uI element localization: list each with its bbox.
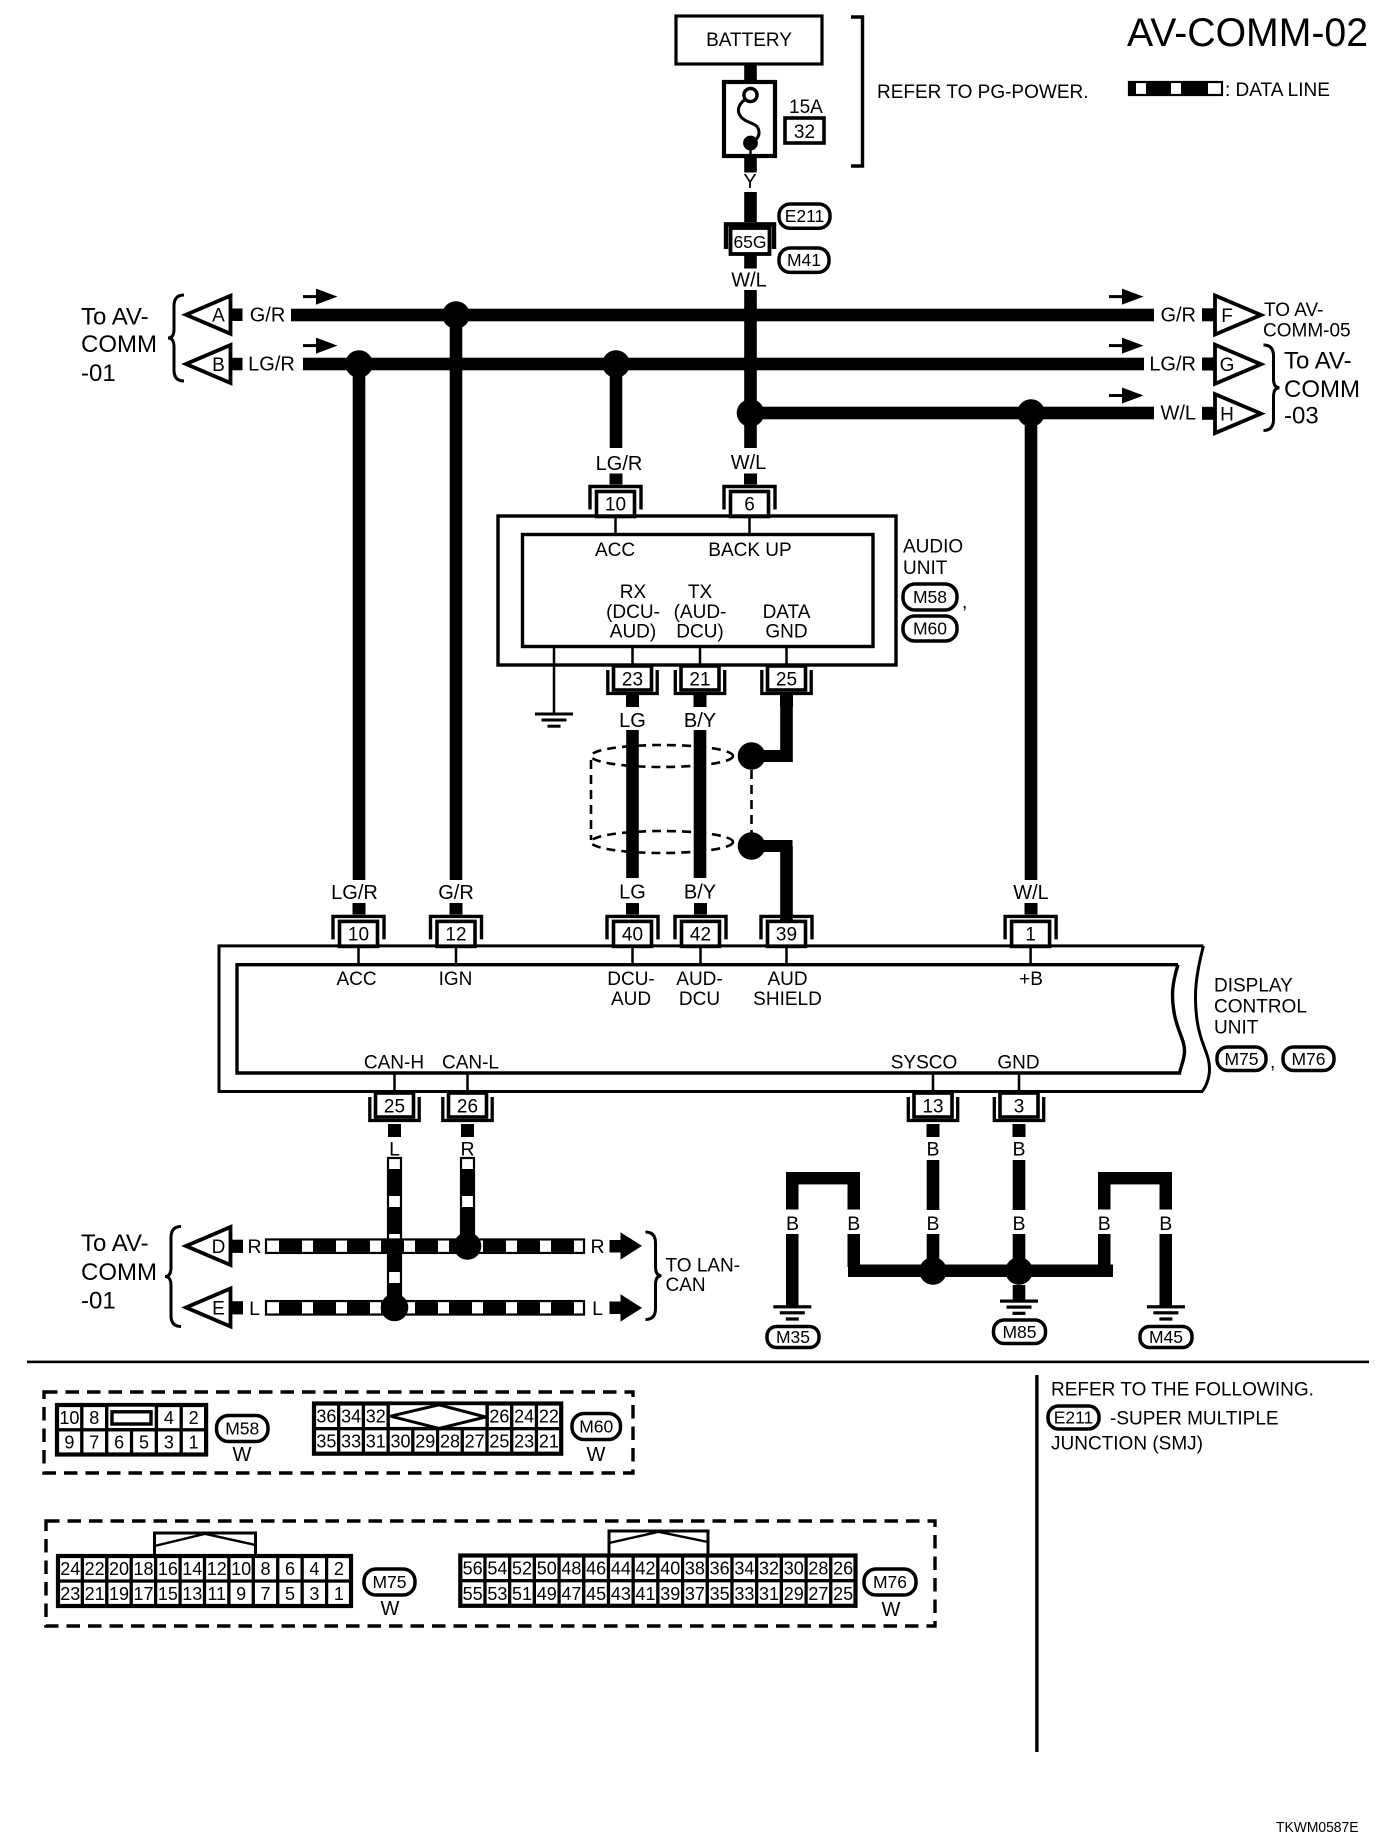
junction dot row B x359 — [345, 350, 373, 378]
display control unit box — [219, 946, 1210, 1092]
wire row A to DCU IGN, color G/R — [450, 315, 463, 880]
svg-text:13: 13 — [922, 1097, 943, 1118]
svg-text:36: 36 — [316, 1407, 336, 1427]
arrow A to AV-COMM-01 — [186, 296, 231, 334]
svg-text:W: W — [882, 1599, 901, 1621]
svg-text:W/L: W/L — [731, 452, 767, 474]
svg-text:1: 1 — [334, 1584, 344, 1604]
junction dot ground bus x933 — [919, 1257, 947, 1285]
direction arrow row A right — [1109, 295, 1125, 298]
svg-text:39: 39 — [776, 924, 797, 945]
battery B1 — [676, 16, 822, 64]
svg-text:32: 32 — [759, 1559, 779, 1579]
svg-text:L: L — [249, 1298, 260, 1320]
ground loop right leg to M45, color B — [1160, 1184, 1173, 1210]
svg-text:3: 3 — [1014, 1097, 1025, 1118]
svg-text:LG/R: LG/R — [248, 354, 295, 376]
svg-text:W/L: W/L — [1013, 882, 1049, 904]
data line CAN-H vertical — [388, 1158, 401, 1300]
separator line — [27, 1361, 1369, 1364]
bus wire G/R row A — [291, 309, 1154, 322]
ground audio unit — [535, 713, 573, 716]
svg-text:3: 3 — [164, 1433, 174, 1453]
svg-text:G/R: G/R — [1160, 305, 1196, 327]
svg-text:32: 32 — [794, 122, 815, 143]
svg-text:6: 6 — [285, 1559, 295, 1579]
svg-text:M58: M58 — [913, 587, 947, 607]
svg-text:COMM: COMM — [1284, 376, 1360, 403]
bracket refer to pg-power — [851, 17, 863, 166]
DCU pin lines top — [357, 946, 360, 965]
svg-text:LG/R: LG/R — [331, 882, 378, 904]
SMJ connector 65G — [726, 224, 774, 249]
svg-text:LG/R: LG/R — [596, 453, 643, 475]
audio ground pin line — [553, 647, 556, 714]
svg-text:TKWM0587E: TKWM0587E — [1276, 1820, 1359, 1836]
svg-text:30: 30 — [784, 1559, 804, 1579]
svg-text:24: 24 — [514, 1407, 534, 1427]
svg-text:54: 54 — [487, 1559, 507, 1579]
svg-text:23: 23 — [514, 1432, 534, 1452]
svg-text:46: 46 — [586, 1559, 606, 1579]
junction dot row B x616 — [602, 350, 630, 378]
wire row B to DCU ACC, color LG/R — [353, 364, 366, 880]
svg-text:-01: -01 — [81, 1288, 116, 1315]
svg-text:M85: M85 — [1002, 1322, 1036, 1342]
svg-text:13: 13 — [182, 1584, 202, 1604]
svg-text:5: 5 — [139, 1433, 149, 1453]
svg-text:GND: GND — [765, 622, 807, 643]
DCU connector pin 40 — [607, 916, 658, 939]
svg-text:B: B — [1012, 1139, 1025, 1161]
svg-text:H: H — [1220, 404, 1234, 425]
svg-text:AV-COMM-02: AV-COMM-02 — [1127, 11, 1368, 55]
bus wire W/L row H — [751, 407, 1155, 420]
svg-text:39: 39 — [660, 1584, 680, 1604]
svg-text:7: 7 — [89, 1433, 99, 1453]
svg-text:W: W — [381, 1598, 400, 1620]
svg-text:M76: M76 — [873, 1572, 907, 1592]
svg-text:51: 51 — [512, 1584, 532, 1604]
shield junction dot bottom — [738, 832, 766, 860]
svg-text:M60: M60 — [913, 619, 947, 639]
audio pin line 21 — [699, 647, 702, 667]
svg-text:B: B — [847, 1213, 860, 1235]
svg-text:10: 10 — [59, 1408, 79, 1428]
svg-text:UNIT: UNIT — [1214, 1018, 1259, 1039]
svg-text:35: 35 — [316, 1432, 336, 1452]
svg-text:48: 48 — [561, 1559, 581, 1579]
fuse 15A — [724, 82, 775, 156]
svg-text:B: B — [1098, 1213, 1111, 1235]
DCU connector pin 12 — [431, 916, 482, 939]
brace left top — [168, 295, 184, 381]
svg-text:+B: +B — [1019, 969, 1043, 990]
wire fuse to SMJ, color Y — [744, 156, 757, 173]
svg-text:DCU): DCU) — [676, 622, 724, 643]
svg-text:40: 40 — [622, 924, 643, 945]
svg-text:17: 17 — [133, 1584, 153, 1604]
svg-text:E211: E211 — [785, 206, 825, 226]
svg-text:TO LAN-: TO LAN- — [666, 1256, 741, 1277]
junction dot row A x456 — [442, 301, 470, 329]
svg-text:30: 30 — [391, 1432, 411, 1452]
svg-text:15: 15 — [158, 1584, 178, 1604]
svg-text:M75: M75 — [372, 1572, 406, 1592]
svg-text:41: 41 — [636, 1584, 656, 1604]
svg-text:COMM-05: COMM-05 — [1263, 320, 1351, 341]
svg-text:10: 10 — [231, 1559, 251, 1579]
svg-text:IGN: IGN — [439, 969, 473, 990]
svg-text:W: W — [587, 1444, 606, 1466]
svg-text:22: 22 — [539, 1407, 559, 1427]
data line CAN-L vertical — [461, 1158, 474, 1240]
svg-text:8: 8 — [89, 1408, 99, 1428]
wire dot to ground M85, color B — [1013, 1285, 1026, 1300]
svg-text:19: 19 — [109, 1584, 129, 1604]
connector pinout M58 — [57, 1430, 82, 1455]
wire SMJ to bus, color W/L — [744, 254, 757, 269]
svg-text:(AUD-: (AUD- — [674, 602, 727, 623]
svg-text:37: 37 — [685, 1584, 705, 1604]
svg-text:To AV-: To AV- — [81, 304, 149, 331]
audio connector pin 10 — [590, 487, 641, 510]
svg-text:B/Y: B/Y — [684, 710, 716, 732]
svg-text:R: R — [590, 1236, 604, 1258]
svg-text:55: 55 — [463, 1584, 483, 1604]
svg-text:ACC: ACC — [336, 969, 376, 990]
svg-text:24: 24 — [60, 1559, 80, 1579]
svg-text:E211: E211 — [1054, 1408, 1094, 1428]
direction arrow row B right — [1109, 344, 1125, 347]
svg-text:42: 42 — [690, 924, 711, 945]
svg-text:CAN-L: CAN-L — [442, 1053, 499, 1074]
svg-text:COMM: COMM — [81, 1259, 157, 1286]
svg-text:12: 12 — [207, 1559, 227, 1579]
svg-text:34: 34 — [734, 1559, 754, 1579]
brace right to LAN-CAN — [646, 1232, 662, 1320]
svg-text:: DATA LINE: : DATA LINE — [1225, 80, 1330, 101]
svg-text:4: 4 — [309, 1559, 319, 1579]
svg-text:F: F — [1221, 306, 1233, 327]
ground M35 — [773, 1305, 811, 1308]
direction arrow row A left — [303, 295, 319, 298]
DCU connector pin 26 — [449, 1093, 487, 1117]
svg-text:26: 26 — [489, 1407, 509, 1427]
svg-text:W/L: W/L — [1160, 403, 1196, 425]
svg-text:To AV-: To AV- — [81, 1230, 149, 1257]
svg-text:34: 34 — [341, 1407, 361, 1427]
svg-text:LG: LG — [619, 882, 646, 904]
svg-text:26: 26 — [833, 1559, 853, 1579]
wire row B to audio ACC, color LG/R — [610, 364, 623, 448]
svg-text:(DCU-: (DCU- — [606, 602, 660, 623]
svg-text:R: R — [247, 1236, 261, 1258]
svg-text:42: 42 — [636, 1559, 656, 1579]
svg-text:B: B — [212, 355, 225, 376]
svg-text:21: 21 — [689, 670, 710, 691]
ground bus wire — [848, 1265, 1113, 1278]
connector ref M76 — [1283, 1047, 1334, 1071]
arrow H to AV-COMM-03 — [1202, 407, 1215, 420]
stub above DCU conn 40 — [626, 903, 639, 915]
svg-text:G: G — [1220, 355, 1235, 376]
connector pinout M60 — [314, 1429, 339, 1454]
data line row E — [266, 1301, 584, 1315]
junction dot row H x1031 — [1017, 399, 1045, 427]
stub above DCU conn 42 — [694, 903, 707, 915]
svg-text:52: 52 — [512, 1559, 532, 1579]
DCU connector pin 10 — [333, 916, 384, 939]
data line row D — [266, 1239, 584, 1253]
audio connector pin 21 — [681, 666, 719, 690]
wire row H to DCU +B, color W/L — [1025, 413, 1038, 880]
svg-text:SYSCO: SYSCO — [891, 1053, 958, 1074]
svg-text:LG: LG — [619, 710, 646, 732]
bus wire LG/R row B — [303, 358, 1144, 371]
brace left bottom — [165, 1227, 181, 1327]
svg-text:AUD): AUD) — [610, 622, 656, 643]
svg-text:36: 36 — [710, 1559, 730, 1579]
svg-text:31: 31 — [366, 1432, 386, 1452]
DCU connector pin 3 — [1000, 1093, 1038, 1117]
connector pinout M75 — [58, 1581, 82, 1606]
svg-text:1: 1 — [189, 1433, 199, 1453]
audio connector pin 23 — [614, 666, 652, 690]
connector ref M75 — [1217, 1047, 1266, 1071]
DCU connector pin 42 — [675, 916, 726, 939]
shield cylinder dashed — [591, 745, 733, 767]
shield drain wire from audio 25 — [780, 695, 793, 707]
legend data-line sample bar — [1129, 82, 1222, 95]
svg-text:RX: RX — [620, 582, 647, 603]
svg-text:E: E — [212, 1298, 225, 1319]
svg-text:10: 10 — [605, 495, 626, 516]
svg-text:65G: 65G — [733, 232, 766, 252]
svg-text:44: 44 — [611, 1559, 631, 1579]
svg-text:,: , — [1270, 1052, 1275, 1073]
svg-text:REFER TO PG-POWER.: REFER TO PG-POWER. — [877, 82, 1089, 103]
svg-text:M58: M58 — [225, 1419, 259, 1439]
svg-text:W: W — [233, 1444, 252, 1466]
svg-text:7: 7 — [261, 1584, 271, 1604]
svg-text:5: 5 — [285, 1584, 295, 1604]
audio pin line 23 — [631, 647, 634, 667]
svg-text:-01: -01 — [81, 360, 116, 387]
wire DCU 13 SYSCO, color B — [927, 1124, 940, 1137]
svg-text:GND: GND — [997, 1053, 1039, 1074]
svg-text:6: 6 — [744, 495, 755, 516]
svg-text:15A: 15A — [789, 97, 823, 118]
connector layout box M75-M76 dashed — [46, 1521, 935, 1626]
svg-text:50: 50 — [537, 1559, 557, 1579]
svg-text:JUNCTION (SMJ): JUNCTION (SMJ) — [1051, 1434, 1203, 1455]
wire DCU 26 CAN-L, color R — [461, 1124, 474, 1137]
svg-text:29: 29 — [415, 1432, 435, 1452]
audio pin line 6 — [748, 516, 751, 535]
wire DCU 25 CAN-H, color L — [388, 1124, 401, 1137]
svg-text:M75: M75 — [1224, 1049, 1258, 1069]
audio unit box — [498, 516, 896, 665]
svg-text:23: 23 — [622, 670, 643, 691]
svg-text:27: 27 — [465, 1432, 485, 1452]
svg-text:B: B — [926, 1139, 939, 1161]
svg-text:47: 47 — [561, 1584, 581, 1604]
audio connector pin 25 — [768, 666, 806, 690]
svg-text:COMM: COMM — [81, 331, 157, 358]
svg-text:CAN: CAN — [666, 1275, 706, 1296]
arrow D to AV-COMM-01 — [186, 1227, 231, 1265]
svg-text:LG/R: LG/R — [1149, 354, 1196, 376]
arrow E to AV-COMM-01 — [186, 1289, 231, 1327]
svg-text:TO AV-: TO AV- — [1264, 300, 1324, 321]
wire battery to fuse — [744, 63, 757, 82]
DCU pin lines bottom — [393, 1073, 396, 1093]
svg-text:DISPLAY: DISPLAY — [1214, 976, 1293, 997]
svg-text:,: , — [962, 592, 967, 613]
svg-text:12: 12 — [445, 924, 466, 945]
svg-text:UNIT: UNIT — [903, 558, 948, 579]
svg-text:3: 3 — [309, 1584, 319, 1604]
svg-text:B: B — [926, 1213, 939, 1235]
svg-text:40: 40 — [660, 1559, 680, 1579]
svg-text:38: 38 — [685, 1559, 705, 1579]
ground loop right — [1098, 1172, 1172, 1184]
svg-text:AUD-: AUD- — [676, 969, 722, 990]
ground M45 — [1147, 1305, 1185, 1308]
wire audio 23 to DCU 40, color LG — [626, 695, 639, 707]
svg-text:DCU: DCU — [679, 989, 720, 1010]
connector clip M76 — [609, 1531, 708, 1556]
svg-text:-03: -03 — [1284, 403, 1319, 430]
ground M85 — [1000, 1300, 1038, 1303]
svg-text:M35: M35 — [776, 1327, 810, 1347]
svg-text:-SUPER MULTIPLE: -SUPER MULTIPLE — [1110, 1409, 1279, 1430]
svg-text:56: 56 — [463, 1559, 483, 1579]
shield drain wire to DCU 39 — [752, 840, 793, 852]
connector ref M41 — [779, 248, 829, 272]
svg-text:BATTERY: BATTERY — [706, 30, 792, 51]
direction arrow row H right — [1109, 394, 1125, 397]
svg-text:L: L — [592, 1298, 603, 1320]
svg-text:29: 29 — [784, 1584, 804, 1604]
junction dot ground bus x1019 — [1005, 1257, 1033, 1285]
svg-text:45: 45 — [586, 1584, 606, 1604]
arrow G to AV-COMM-03 — [1202, 358, 1215, 371]
separator vertical line — [1035, 1375, 1038, 1752]
svg-text:16: 16 — [158, 1559, 178, 1579]
svg-text:28: 28 — [440, 1432, 460, 1452]
brace right to AV-COMM-03 — [1264, 345, 1280, 431]
arrow out row D to LAN-CAN — [610, 1240, 621, 1253]
svg-text:22: 22 — [85, 1559, 105, 1579]
svg-text:BACK UP: BACK UP — [708, 540, 791, 561]
svg-text:31: 31 — [759, 1584, 779, 1604]
svg-text:28: 28 — [808, 1559, 828, 1579]
svg-text:20: 20 — [109, 1559, 129, 1579]
svg-text:B/Y: B/Y — [684, 882, 716, 904]
svg-text:M76: M76 — [1291, 1049, 1325, 1069]
DCU connector pin 25 — [376, 1093, 414, 1117]
audio connector pin 6 — [724, 487, 775, 510]
svg-text:AUD: AUD — [611, 989, 651, 1010]
svg-text:Y: Y — [743, 171, 756, 193]
junction dot row D — [454, 1232, 482, 1260]
svg-text:26: 26 — [457, 1097, 478, 1118]
DCU connector pin 1 — [1005, 916, 1056, 939]
connector ref M60 — [903, 616, 957, 641]
svg-text:AUD: AUD — [767, 969, 807, 990]
svg-text:TX: TX — [688, 582, 713, 603]
svg-text:6: 6 — [114, 1433, 124, 1453]
svg-text:REFER TO THE FOLLOWING.: REFER TO THE FOLLOWING. — [1051, 1380, 1314, 1401]
wire DCU 3 GND, color B — [1013, 1124, 1026, 1137]
svg-text:To AV-: To AV- — [1284, 348, 1352, 375]
svg-text:AUDIO: AUDIO — [903, 537, 963, 558]
connector ref E211 — [779, 204, 830, 228]
direction arrow row B left — [303, 344, 319, 347]
svg-text:2: 2 — [189, 1408, 199, 1428]
svg-text:DATA: DATA — [763, 602, 811, 623]
svg-text:B: B — [1159, 1213, 1172, 1235]
svg-text:11: 11 — [207, 1584, 226, 1604]
svg-text:14: 14 — [182, 1559, 202, 1579]
svg-text:2: 2 — [334, 1559, 344, 1579]
svg-text:G/R: G/R — [250, 305, 286, 327]
svg-text:CAN-H: CAN-H — [364, 1053, 424, 1074]
svg-text:1: 1 — [1025, 924, 1036, 945]
arrow B to AV-COMM-01 — [186, 345, 231, 383]
svg-text:SHIELD: SHIELD — [753, 989, 822, 1010]
svg-text:CONTROL: CONTROL — [1214, 997, 1307, 1018]
arrow out row E to LAN-CAN — [610, 1302, 621, 1315]
svg-text:9: 9 — [236, 1584, 246, 1604]
svg-text:DCU-: DCU- — [607, 969, 655, 990]
svg-text:B: B — [1012, 1213, 1025, 1235]
svg-text:35: 35 — [710, 1584, 730, 1604]
ground loop left right leg, color B — [848, 1184, 861, 1210]
svg-text:32: 32 — [366, 1407, 386, 1427]
audio pin line 25 — [785, 647, 788, 667]
shield dashed link — [750, 770, 753, 833]
svg-text:33: 33 — [341, 1432, 361, 1452]
svg-text:21: 21 — [85, 1584, 105, 1604]
svg-text:33: 33 — [734, 1584, 754, 1604]
svg-text:9: 9 — [64, 1433, 74, 1453]
connector clip M75 — [155, 1533, 256, 1557]
svg-text:25: 25 — [833, 1584, 853, 1604]
svg-text:25: 25 — [384, 1097, 405, 1118]
svg-text:M45: M45 — [1149, 1327, 1183, 1347]
svg-text:27: 27 — [808, 1584, 828, 1604]
audio pin line 10 — [614, 516, 617, 535]
svg-text:M41: M41 — [787, 250, 821, 270]
junction dot row E — [381, 1294, 409, 1322]
wire audio 21 to DCU 42, color B/Y — [694, 695, 707, 707]
connector ref M58 — [903, 584, 957, 610]
connector pinout M76 — [460, 1581, 485, 1606]
DCU connector pin 13 — [914, 1093, 952, 1117]
shield junction dot top — [738, 742, 766, 770]
svg-text:10: 10 — [348, 924, 369, 945]
svg-text:53: 53 — [487, 1584, 507, 1604]
svg-text:ACC: ACC — [595, 540, 635, 561]
svg-text:G/R: G/R — [438, 882, 474, 904]
svg-text:25: 25 — [776, 670, 797, 691]
svg-text:43: 43 — [611, 1584, 631, 1604]
arrow F to AV-COMM-05 — [1202, 308, 1215, 321]
svg-text:21: 21 — [539, 1432, 559, 1452]
